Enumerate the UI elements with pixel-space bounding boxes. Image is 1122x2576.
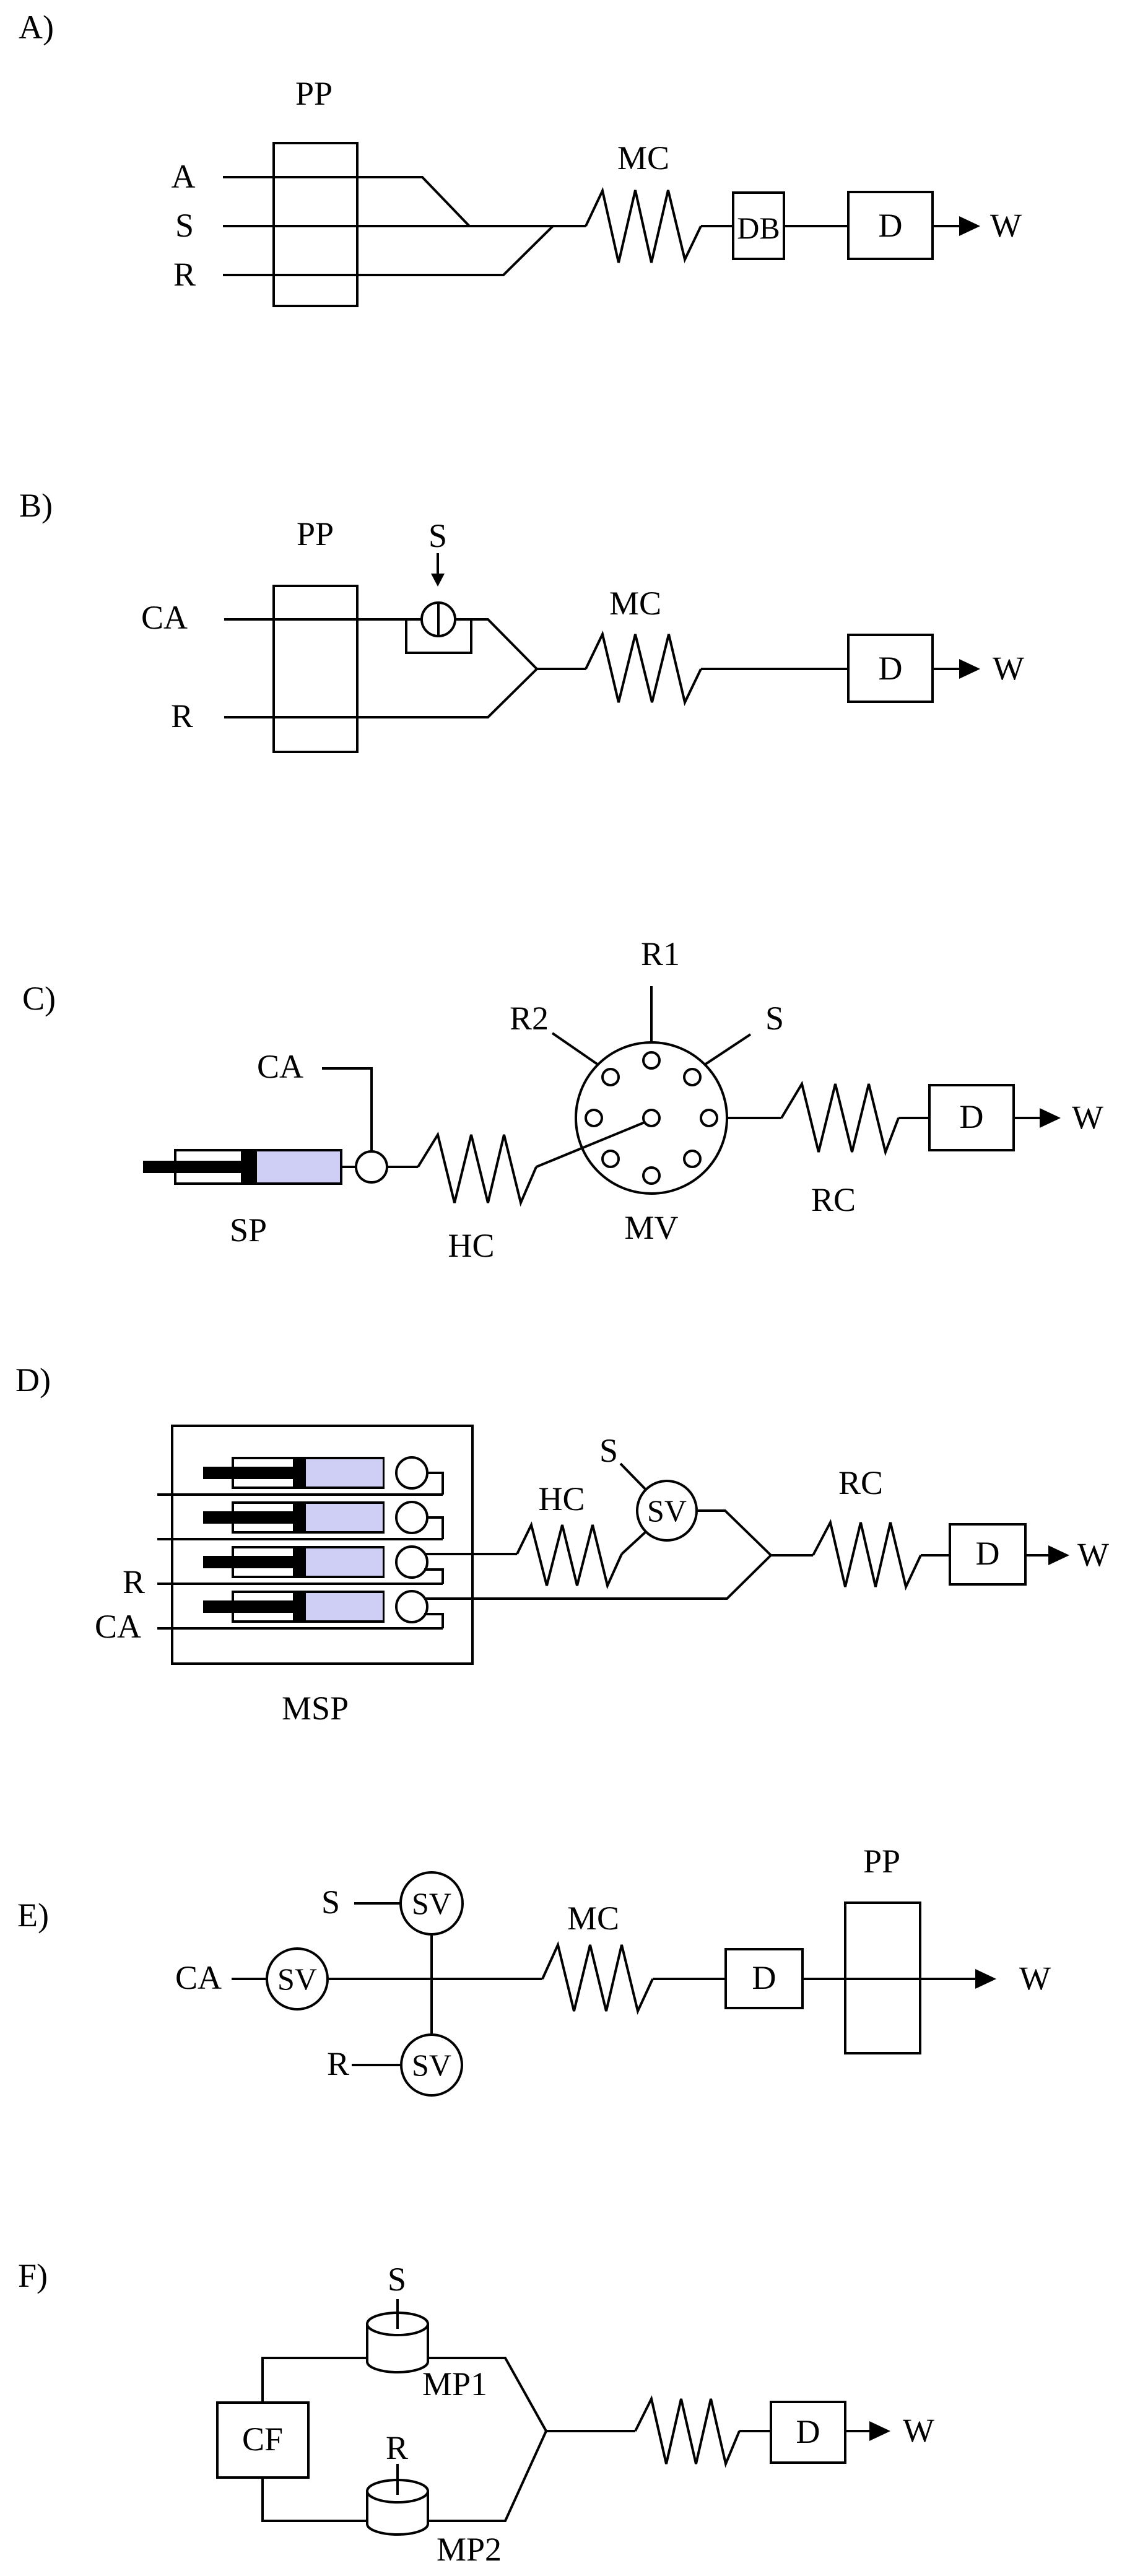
wire CA: [322, 1068, 372, 1151]
wire A: [223, 177, 469, 226]
wire: [387, 1166, 418, 1168]
micropump MP1 body: [367, 2324, 428, 2372]
wire to waste: [1025, 1554, 1049, 1557]
junction valve: [356, 1151, 387, 1182]
svg-text:R: R: [386, 2429, 408, 2466]
multisyringe pump MSP box: [172, 1426, 472, 1664]
wire to valve center: [536, 1122, 645, 1167]
carrier flask CF: [217, 2403, 308, 2478]
wire CF bottom: [263, 2478, 367, 2521]
syringe 1 hook wire: [427, 1473, 443, 1495]
svg-text:C): C): [22, 980, 56, 1017]
arrowhead: [1040, 1108, 1061, 1128]
syringe 2 liquid: [306, 1504, 383, 1531]
MV port right: [701, 1110, 717, 1126]
arrowhead: [869, 2421, 890, 2441]
svg-text:PP: PP: [297, 515, 334, 552]
reaction coil RC: [813, 1522, 921, 1587]
wire S: [620, 1464, 646, 1490]
injection valve body: [406, 619, 471, 653]
syringe 4 rod: [203, 1600, 293, 1613]
injection valve rotor: [422, 603, 455, 636]
svg-text:S: S: [765, 1000, 784, 1037]
arrowhead: [959, 659, 980, 679]
wire S: [223, 225, 586, 227]
svg-text:R2: R2: [510, 1000, 549, 1037]
svg-text:MC: MC: [617, 139, 669, 177]
svg-text:W: W: [1072, 1099, 1103, 1136]
wire CF top: [263, 2358, 367, 2403]
sample arrow line: [437, 553, 439, 574]
syringe 4 output wire: [425, 1555, 771, 1599]
svg-text:W: W: [990, 207, 1022, 244]
syringe 4 liquid: [306, 1593, 383, 1620]
valve stem: [437, 603, 440, 636]
svg-text:R: R: [171, 697, 193, 735]
svg-text:SV: SV: [277, 1962, 317, 1996]
wire SV to junction: [697, 1511, 771, 1555]
svg-text:W: W: [1019, 1960, 1051, 1997]
syringe 3 piston: [293, 1547, 306, 1577]
syringe 2 hook wire: [427, 1517, 443, 1539]
peristaltic pump PP: [274, 586, 357, 752]
MV center port: [643, 1110, 659, 1126]
wire through pump: [802, 1978, 976, 1980]
svg-text:E): E): [17, 1897, 49, 1934]
syringe 3 barrel: [233, 1547, 383, 1577]
syringe 2 barrel: [233, 1503, 383, 1532]
wire MP2 to junction: [428, 2431, 546, 2521]
svg-text:R1: R1: [641, 935, 680, 972]
svg-text:F): F): [18, 2257, 48, 2294]
svg-text:R: R: [327, 2045, 349, 2082]
wire: [739, 2430, 771, 2432]
wire to waste: [933, 225, 960, 227]
svg-text:MSP: MSP: [282, 1690, 349, 1727]
MV port lower-right: [684, 1151, 700, 1167]
wire CA: [224, 619, 537, 669]
syringe barrel: [175, 1150, 341, 1184]
wire coil to valve: [622, 1532, 646, 1554]
syringe 1 piston: [293, 1458, 306, 1488]
holding coil HC: [418, 1135, 536, 1203]
solenoid valve SV reagent: [401, 2035, 462, 2095]
solenoid valve SV: [637, 1481, 697, 1540]
svg-text:D: D: [879, 207, 903, 244]
wire: [653, 1978, 726, 1980]
syringe 1 barrel: [233, 1458, 383, 1488]
svg-text:CA: CA: [141, 599, 188, 636]
svg-text:D): D): [15, 1361, 51, 1399]
MV port lower-left: [602, 1151, 619, 1167]
svg-text:D: D: [960, 1098, 984, 1135]
svg-text:SV: SV: [412, 2048, 451, 2082]
wire to waste: [933, 668, 960, 670]
detector D: [950, 1524, 1025, 1584]
micropump MP1 top: [367, 2313, 428, 2335]
wire MP1 to junction: [428, 2358, 546, 2431]
detector D: [771, 2402, 845, 2463]
svg-text:MC: MC: [567, 1900, 619, 1937]
svg-text:SP: SP: [230, 1212, 267, 1249]
svg-text:D: D: [879, 650, 903, 687]
detector D: [929, 1085, 1014, 1150]
svg-text:W: W: [903, 2412, 934, 2449]
svg-text:MP1: MP1: [422, 2365, 487, 2403]
svg-text:CA: CA: [95, 1608, 141, 1645]
wire S: [354, 1902, 401, 1905]
sample arrowhead: [431, 574, 445, 587]
svg-text:D: D: [796, 2413, 820, 2450]
wire: [341, 1166, 356, 1168]
syringe 3 hook wire: [424, 1570, 443, 1584]
syringe 3 output wire: [425, 1553, 517, 1555]
svg-text:CA: CA: [175, 1959, 222, 1996]
wire CA inlet: [157, 1627, 443, 1630]
wire: [701, 225, 733, 227]
svg-text:CF: CF: [242, 2421, 283, 2458]
MV port left: [586, 1110, 602, 1126]
syringe 4 barrel: [233, 1592, 383, 1622]
wire junction: [546, 2430, 635, 2432]
svg-text:W: W: [993, 650, 1024, 687]
svg-text:S: S: [599, 1432, 618, 1469]
syringe 4 hook wire: [424, 1614, 443, 1628]
MV port upper-left: [602, 1069, 619, 1085]
syringe 1 valve: [396, 1457, 427, 1488]
syringe liquid: [257, 1151, 340, 1182]
syringe 3 rod: [203, 1556, 293, 1568]
reaction coil: [635, 2399, 739, 2464]
wire: [701, 668, 848, 670]
wire to waste: [845, 2430, 870, 2432]
syringe 4 valve: [396, 1591, 427, 1622]
MV port upper-right: [684, 1069, 700, 1085]
wire to waste: [1014, 1117, 1040, 1119]
syringe 1 liquid: [306, 1459, 383, 1487]
wire R1: [650, 986, 653, 1042]
svg-text:R: R: [173, 256, 196, 293]
solenoid valve SV sample: [401, 1872, 463, 1934]
syringe 3 valve: [396, 1547, 427, 1578]
arrowhead: [975, 1969, 996, 1989]
MV port bottom: [643, 1168, 659, 1184]
svg-text:PP: PP: [863, 1843, 900, 1880]
svg-text:HC: HC: [538, 1480, 585, 1517]
mixing coil MC: [542, 1945, 653, 2011]
svg-text:B): B): [19, 487, 53, 524]
MV port top: [643, 1052, 659, 1068]
detector D: [848, 192, 933, 259]
wire R: [396, 2464, 399, 2495]
solenoid valve SV carrier: [267, 1949, 328, 2009]
svg-text:MC: MC: [609, 585, 661, 622]
svg-text:S: S: [175, 207, 194, 244]
wire R2: [552, 1033, 598, 1065]
svg-text:PP: PP: [295, 75, 333, 112]
wire R: [224, 669, 537, 717]
svg-text:DB: DB: [737, 211, 780, 245]
svg-text:A: A: [172, 158, 196, 195]
svg-text:RC: RC: [838, 1464, 883, 1501]
holding coil HC: [517, 1525, 622, 1586]
wire vertical: [430, 1934, 433, 2035]
wire: [898, 1117, 929, 1119]
syringe 2 piston: [293, 1503, 306, 1532]
svg-text:MP2: MP2: [437, 2531, 502, 2568]
peristaltic pump PP: [845, 1903, 920, 2053]
arrowhead: [1048, 1545, 1069, 1565]
wire S: [705, 1034, 750, 1065]
mixing coil MC: [586, 634, 701, 702]
svg-text:D: D: [752, 1959, 776, 1996]
arrowhead: [959, 216, 980, 236]
syringe piston: [241, 1150, 257, 1184]
syringe plunger rod: [143, 1161, 241, 1173]
wire out: [727, 1117, 781, 1119]
svg-text:S: S: [428, 517, 447, 554]
wire: [784, 225, 848, 227]
syringe 4 piston: [293, 1592, 306, 1622]
svg-text:S: S: [321, 1884, 340, 1921]
wire: [921, 1554, 950, 1557]
svg-text:R: R: [123, 1563, 145, 1600]
svg-text:RC: RC: [811, 1181, 856, 1218]
debubbler DB: [733, 193, 784, 259]
syringe 2 rod: [203, 1511, 293, 1524]
svg-text:D: D: [976, 1535, 1000, 1572]
svg-text:SV: SV: [412, 1886, 451, 1921]
wire S: [396, 2299, 399, 2329]
reaction coil RC: [781, 1084, 898, 1152]
detector D: [726, 1949, 802, 2008]
syringe 2 valve: [396, 1502, 427, 1533]
wire main: [328, 1978, 542, 1980]
wire junction to coil: [537, 668, 586, 670]
wire R inlet: [157, 1583, 443, 1585]
svg-text:A): A): [19, 9, 54, 46]
svg-text:MV: MV: [624, 1209, 678, 1246]
wire R: [223, 226, 553, 275]
multiposition valve MV: [576, 1042, 727, 1194]
syringe 3 liquid: [306, 1548, 383, 1576]
micropump MP2 body: [367, 2491, 428, 2535]
mixing coil MC: [586, 190, 701, 263]
wire CA: [232, 1978, 267, 1980]
detector D: [848, 635, 933, 702]
svg-text:CA: CA: [257, 1048, 303, 1085]
svg-text:HC: HC: [448, 1227, 494, 1264]
syringe 1 inlet wire: [157, 1493, 443, 1496]
svg-text:SV: SV: [647, 1493, 687, 1528]
wire junction: [771, 1554, 813, 1557]
micropump MP2 top: [367, 2480, 428, 2502]
peristaltic pump PP: [274, 143, 357, 306]
svg-text:S: S: [388, 2261, 406, 2298]
svg-text:W: W: [1077, 1536, 1109, 1573]
wire R: [352, 2064, 401, 2066]
syringe 2 inlet wire: [157, 1538, 443, 1540]
syringe 1 rod: [203, 1467, 293, 1479]
